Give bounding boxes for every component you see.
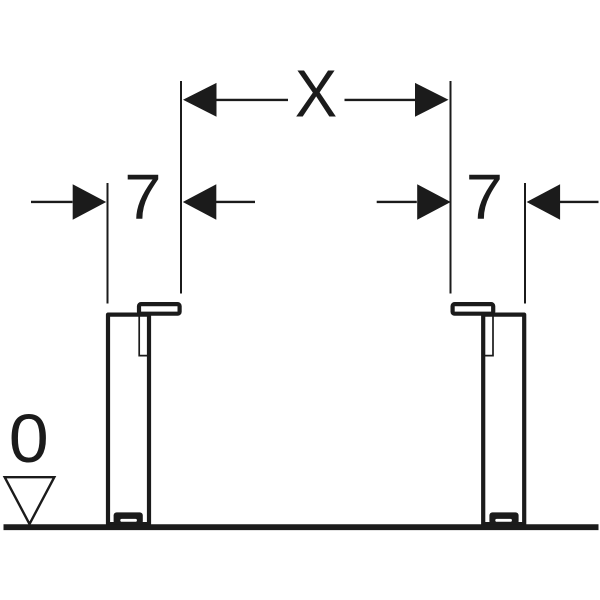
right 7 dimension tail right: [560, 201, 599, 203]
dimension X label: [295, 56, 337, 131]
right 7 dimension tail left: [377, 201, 417, 203]
right post top flange: [453, 304, 494, 314]
left 7 dimension tail right: [216, 201, 255, 203]
right 7 label: [466, 161, 503, 232]
dimension X left arrow: [183, 83, 217, 117]
dimension X extension line right: [450, 81, 452, 294]
floor line: [4, 524, 599, 530]
right 7 arrow pointing right: [417, 184, 451, 219]
left post inner profile: [139, 316, 149, 356]
left 7 dimension tail left: [31, 201, 73, 203]
svg-text:0: 0: [9, 400, 49, 477]
dimension X extension line left: [180, 81, 182, 294]
right 7 extension line: [524, 183, 526, 304]
left 7 label: [124, 161, 161, 232]
left mounting post body: [108, 315, 149, 527]
left 7 extension line: [107, 183, 109, 304]
left post top flange: [139, 304, 180, 314]
right post inner profile: [483, 316, 493, 356]
dimension X right arrow: [415, 83, 449, 117]
left 7 arrow pointing left: [183, 184, 217, 219]
dimension X right line: [345, 99, 418, 101]
right post foot: [489, 512, 518, 524]
datum triangle: [5, 477, 55, 524]
svg-text:7: 7: [466, 161, 503, 232]
svg-text:X: X: [295, 56, 337, 131]
right mounting post body: [453, 304, 525, 527]
left 7 arrow pointing right: [73, 184, 107, 219]
datum zero label: [9, 400, 49, 477]
right 7 arrow pointing left: [527, 184, 561, 219]
left post foot: [108, 512, 149, 527]
svg-text:7: 7: [124, 161, 161, 232]
dimension X left line: [216, 99, 289, 101]
